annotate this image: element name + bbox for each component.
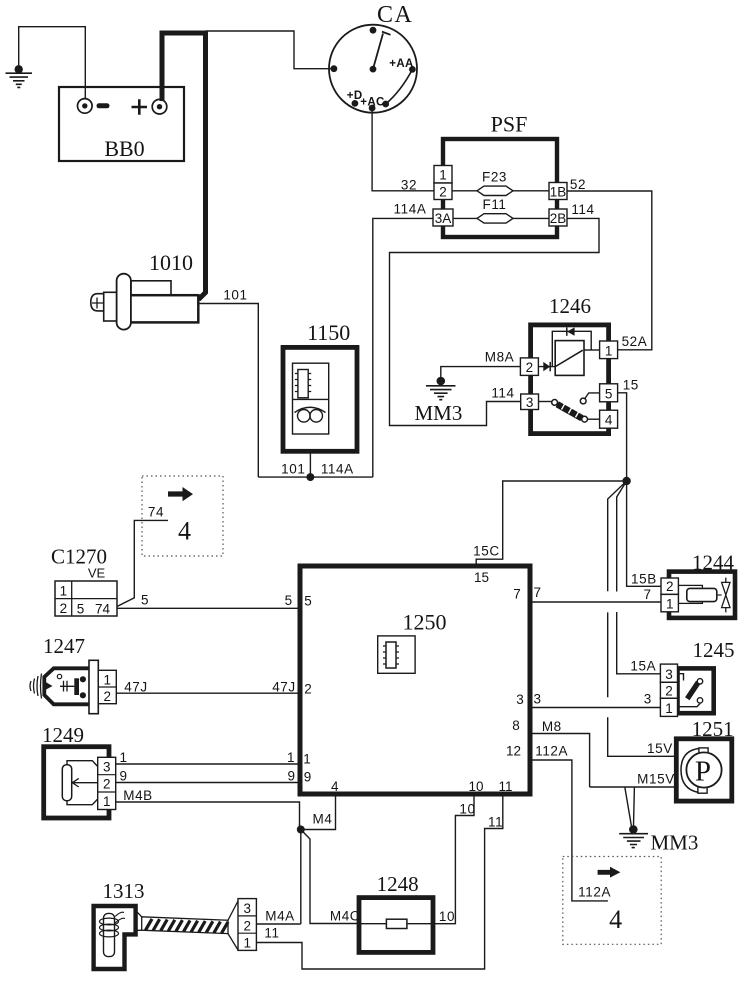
svg-text:1: 1	[60, 584, 68, 599]
svg-text:1248: 1248	[377, 872, 419, 896]
svg-text:M4C: M4C	[330, 909, 360, 924]
svg-text:4: 4	[605, 413, 613, 428]
PSF pin 2B	[549, 209, 567, 226]
svg-text:1: 1	[605, 344, 613, 359]
relay 1246	[520, 294, 617, 434]
pin 2 diode	[538, 366, 555, 368]
wire battery+ to 1010 (thick)	[162, 33, 206, 300]
wire 1150 output stub	[309, 451, 311, 477]
svg-text:11: 11	[264, 926, 279, 941]
svg-text:5: 5	[304, 594, 312, 609]
svg-text:114: 114	[491, 386, 514, 401]
svg-text:2: 2	[103, 777, 111, 792]
svg-text:1: 1	[665, 701, 673, 716]
svg-text:M15V: M15V	[637, 772, 675, 787]
svg-text:2: 2	[666, 579, 674, 594]
svg-text:10: 10	[459, 802, 475, 817]
wire 5 : C1270 to 1250 pin 5	[117, 607, 300, 609]
svg-text:114: 114	[571, 202, 594, 217]
svg-text:114A: 114A	[321, 461, 354, 476]
svg-text:1: 1	[104, 672, 112, 687]
svg-text:112A: 112A	[578, 885, 611, 900]
svg-text:PSF: PSF	[491, 112, 528, 137]
wire 52 : PSF 1B to relay 1246 pin1	[567, 191, 652, 350]
wire 15B : junction to 1244 pin 2	[627, 481, 661, 586]
wire 11 : 1313 pin1 to 1250 pin 11	[256, 794, 502, 969]
svg-text:2B: 2B	[550, 211, 567, 226]
wire 9 : 1249 pin2 to 1250 pin9	[116, 782, 300, 784]
svg-text:2: 2	[60, 601, 68, 616]
svg-text:10: 10	[439, 909, 455, 924]
svg-text:P: P	[695, 756, 711, 788]
svg-text:8: 8	[512, 718, 520, 733]
coil bypass diode	[552, 331, 591, 366]
svg-text:74: 74	[148, 505, 164, 520]
svg-text:3: 3	[644, 692, 652, 707]
throttle potentiometer 1249	[42, 723, 116, 818]
wire M8A : 1246 pin2 to ground MM3	[441, 367, 521, 378]
svg-text:2: 2	[526, 360, 534, 375]
svg-text:5: 5	[605, 386, 613, 401]
wire M4B : 1249 pin1 to node M4	[116, 802, 300, 826]
svg-text:3A: 3A	[435, 211, 452, 226]
svg-text:MM3: MM3	[414, 401, 462, 425]
battery BB0	[59, 87, 184, 161]
wire 10 : 1248 to 1250 pin 10	[433, 794, 474, 924]
svg-text:5: 5	[141, 593, 149, 608]
1249 pins 3,2,1	[98, 757, 116, 809]
svg-text:MM3: MM3	[650, 831, 698, 855]
svg-text:1: 1	[439, 168, 447, 183]
svg-text:52A: 52A	[622, 334, 648, 349]
svg-text:1150: 1150	[307, 320, 350, 345]
svg-text:1B: 1B	[550, 185, 567, 200]
svg-text:5: 5	[77, 602, 85, 617]
svg-text:47J: 47J	[272, 680, 296, 695]
ECU 1250	[300, 566, 530, 794]
svg-text:M4B: M4B	[123, 788, 153, 803]
wire M4 : junction to 1250 pin 4	[301, 794, 336, 830]
ground MM3 (relay)	[414, 377, 462, 425]
injector 1244	[661, 551, 735, 618]
PSF pin 1	[434, 166, 452, 184]
svg-text:1: 1	[103, 794, 111, 809]
svg-text:F11: F11	[482, 197, 506, 212]
wire 15 : 1246 pin5 to junction	[618, 393, 627, 481]
svg-text:1010: 1010	[149, 250, 193, 275]
ignition switch CA	[329, 2, 417, 113]
svg-text:32: 32	[401, 178, 417, 193]
1313 cable (hatched)	[136, 901, 238, 950]
ground (top-left, battery negative)	[6, 27, 86, 99]
svg-text:11: 11	[488, 815, 503, 830]
wire battery+ to CA	[206, 31, 331, 69]
svg-text:3: 3	[533, 692, 541, 707]
1245 pin 1	[660, 698, 677, 716]
1247 pins 1,2	[98, 670, 116, 703]
svg-text:2: 2	[243, 918, 251, 933]
fuse F23	[477, 186, 513, 195]
svg-text:+AA: +AA	[389, 58, 414, 70]
wire 47J : 1247 to 1250 pin 2	[116, 692, 300, 694]
svg-text:15C: 15C	[473, 544, 500, 559]
svg-text:4: 4	[331, 779, 339, 794]
svg-text:114A: 114A	[394, 202, 427, 217]
wire M8 : 1250 pin8 to M15V net	[530, 734, 590, 788]
wire M4C branch : junction to 1248	[301, 830, 359, 924]
relay coil	[555, 341, 584, 376]
node 101/114A junction	[258, 476, 373, 478]
PSF pin 3A	[433, 209, 453, 226]
svg-text:12: 12	[506, 744, 521, 759]
1246 pin 4	[600, 410, 618, 428]
wire 114 : PSF 2B to relay 1246 pin3	[390, 218, 600, 425]
wire 15A : junction to 1245 pin 3 (with hop gap at wire 7)	[617, 481, 661, 674]
svg-text:CA: CA	[377, 2, 413, 28]
svg-text:+AC: +AC	[360, 96, 385, 108]
svg-text:101: 101	[223, 288, 247, 303]
wire ground drops to MM3	[625, 787, 635, 827]
svg-text:M8A: M8A	[485, 350, 515, 365]
wire 1 : 1249 pin3 to 1250 pin1	[116, 763, 300, 765]
wire 7 : 1250 pin7 to 1244 pin1	[530, 601, 661, 603]
relay contact	[539, 401, 552, 403]
svg-text:7: 7	[644, 587, 652, 602]
1246 pin 5	[600, 384, 618, 402]
idle actuator 1245	[660, 638, 734, 716]
svg-text:BB0: BB0	[104, 136, 144, 161]
1246 pin 2	[520, 358, 538, 376]
svg-text:1: 1	[243, 936, 251, 951]
svg-text:1: 1	[666, 596, 674, 611]
fuel pump 1251	[676, 717, 733, 801]
wire 112A : 1250 pin12 to arrow box 4	[530, 760, 608, 901]
svg-text:3: 3	[526, 395, 534, 410]
1244 pin 1	[661, 594, 678, 611]
node M4 junction	[297, 826, 305, 834]
connector C1270	[51, 545, 117, 617]
wire 114A : PSF 3A to junction 101/114A	[373, 218, 433, 477]
svg-text:15: 15	[623, 378, 639, 393]
svg-text:7: 7	[533, 585, 541, 600]
node 15 junction	[622, 477, 630, 485]
svg-text:1250: 1250	[403, 610, 447, 635]
svg-text:7: 7	[513, 587, 521, 602]
wire 74 : C1270 to arrow box	[117, 520, 168, 606]
ground MM3 (pump)	[619, 825, 698, 854]
svg-text:15B: 15B	[631, 572, 657, 587]
wire M4A : 1313 pin2	[256, 923, 300, 925]
svg-text:15V: 15V	[647, 741, 673, 756]
1246 pin 1	[600, 341, 618, 359]
PSF pin 1B	[549, 183, 567, 200]
resistor 1248	[359, 872, 433, 952]
svg-text:1: 1	[303, 752, 311, 767]
svg-text:2: 2	[439, 185, 447, 200]
svg-text:M4: M4	[313, 812, 333, 827]
wire 15V : junction to 1251 (with hop gaps at wires 7 and 3)	[608, 481, 677, 756]
svg-text:1249: 1249	[42, 723, 84, 747]
svg-text:11: 11	[498, 779, 512, 794]
crankshaft sensor 1313	[94, 879, 145, 969]
svg-text:3: 3	[103, 760, 111, 775]
svg-text:2: 2	[665, 684, 673, 699]
ignition module 1150	[283, 320, 357, 451]
fusebox PSF	[433, 112, 567, 238]
wire 15C : junction to 1250 pin 15	[476, 481, 626, 566]
svg-text:15A: 15A	[630, 659, 656, 674]
svg-text:4: 4	[609, 905, 622, 934]
svg-text:9: 9	[304, 770, 312, 785]
svg-text:1246: 1246	[549, 294, 591, 318]
svg-text:15: 15	[474, 570, 489, 585]
svg-text:1: 1	[119, 750, 127, 765]
svg-text:74: 74	[95, 602, 111, 617]
svg-text:47J: 47J	[124, 680, 148, 695]
svg-text:5: 5	[285, 593, 293, 608]
svg-text:2: 2	[104, 689, 112, 704]
svg-text:3: 3	[243, 901, 251, 916]
knock sensor 1247	[30, 634, 116, 714]
PSF pin 2	[434, 183, 452, 200]
wire 32 : CA to PSF pin2	[372, 108, 434, 191]
svg-text:10: 10	[468, 779, 483, 794]
svg-text:M4A: M4A	[265, 908, 295, 923]
wire 101 : 1010 to junction	[198, 304, 258, 478]
1244 pin 2	[661, 578, 678, 594]
svg-text:1313: 1313	[103, 879, 145, 903]
wire 3 : 1250 pin3 to 1245 pin1	[530, 707, 660, 709]
svg-text:VE: VE	[88, 566, 106, 581]
svg-text:3: 3	[516, 692, 524, 707]
fuse F11	[477, 214, 513, 223]
1245 pin 2	[660, 682, 677, 698]
1245 pin 3	[660, 664, 677, 682]
svg-text:1245: 1245	[693, 638, 735, 662]
svg-text:4: 4	[178, 517, 191, 546]
svg-text:101: 101	[281, 461, 305, 476]
svg-text:9: 9	[287, 769, 295, 784]
svg-text:2: 2	[304, 682, 312, 697]
svg-text:1: 1	[287, 750, 295, 765]
destination arrow box 4 (wire 112A)	[563, 857, 661, 945]
svg-text:52: 52	[570, 177, 586, 192]
1246 pin 3	[521, 394, 539, 410]
1313 connector pins 3,2,1	[238, 899, 256, 951]
svg-text:M8: M8	[542, 719, 562, 734]
svg-text:F23: F23	[482, 170, 507, 185]
spark plug 1010	[91, 250, 199, 330]
wire M15V : 1251 to ground	[590, 786, 677, 788]
svg-text:112A: 112A	[535, 743, 568, 758]
svg-text:9: 9	[119, 769, 127, 784]
svg-text:3: 3	[665, 667, 673, 682]
svg-text:1247: 1247	[43, 634, 85, 658]
wire M4A vertical : junction to 1313 pin 2	[300, 830, 302, 925]
destination arrow box 4 (wire 74)	[142, 476, 223, 556]
